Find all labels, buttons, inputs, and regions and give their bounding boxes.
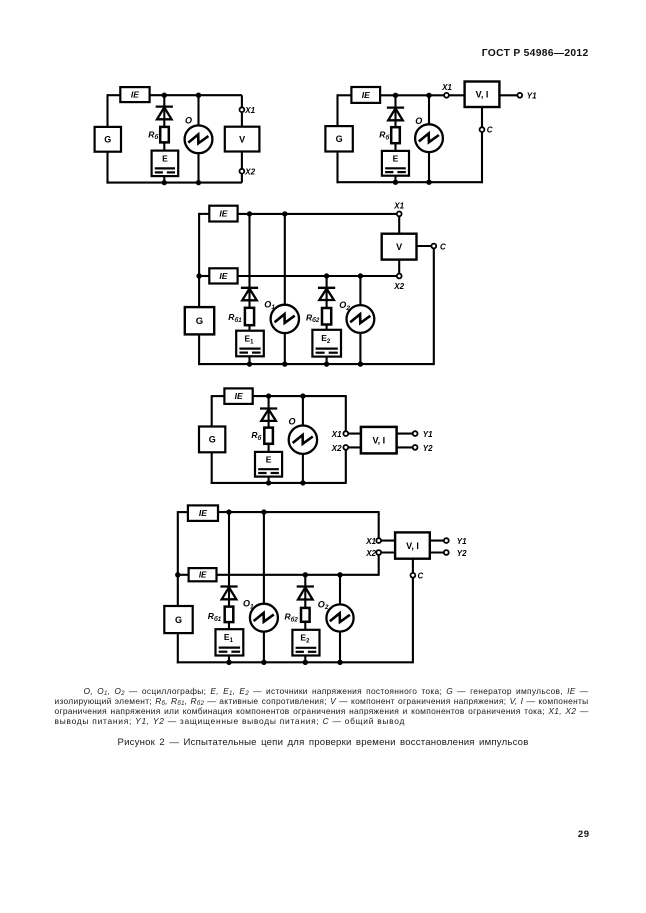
- node: circuit3 branch Rб2 / rail2: [324, 273, 329, 278]
- wire: circuit5 rail2 corner up to X2: [379, 553, 395, 576]
- wire: circuit4 left vertical (G to bottom rail): [211, 452, 213, 484]
- svg-text:Rб1: Rб1: [228, 312, 242, 324]
- svg-text:O1: O1: [264, 299, 275, 311]
- node: circuit5 branch O1 / rail1: [261, 509, 266, 514]
- terminal X1 (circuit 5): [376, 538, 381, 543]
- svg-text:X2: X2: [365, 549, 376, 558]
- wire: circuit4 stub from IE left to left vertical: [212, 395, 225, 397]
- svg-text:G: G: [196, 316, 203, 327]
- resistor Rб2 (circuit 5): [301, 608, 310, 622]
- terminal C common (circuit 2): [480, 127, 485, 132]
- svg-text:Rб2: Rб2: [306, 312, 320, 324]
- wire: circuit1 stub from IE left to left vertical: [108, 94, 121, 96]
- svg-text:Y1: Y1: [457, 537, 467, 546]
- voltage limiting component V (circuit 3): [382, 234, 417, 260]
- svg-text:X2: X2: [244, 168, 255, 177]
- node: circuit5 branch O1 / bottom rail: [261, 660, 266, 665]
- wire: circuit4 diode branch vertical: [268, 396, 270, 483]
- wire: circuit3 bottom rail: [198, 363, 434, 365]
- svg-text:V, I: V, I: [476, 90, 489, 100]
- wire: circuit2 left vertical (IE to G): [336, 94, 338, 126]
- node: circuit3 branch Rб1 / rail1: [247, 211, 252, 216]
- node: circuit5 branch Rб2 / rail2: [303, 572, 308, 577]
- svg-text:E: E: [266, 454, 272, 464]
- terminal X2 (circuit 4): [343, 445, 348, 450]
- svg-text:Rб: Rб: [379, 130, 389, 142]
- svg-text:X1: X1: [331, 430, 342, 439]
- wire: circuit2 left vertical (G to bottom rail): [336, 152, 338, 184]
- DC voltage source E1 (circuit 3): [236, 331, 264, 357]
- node: circuit4 diode branch / top rail: [266, 393, 271, 398]
- svg-text:IE: IE: [199, 508, 207, 518]
- wire: circuit5 V,I common down through C to bottom rail: [412, 559, 414, 664]
- pulse generator G (circuit 2): [325, 126, 352, 151]
- svg-text:IE: IE: [362, 90, 370, 100]
- node: circuit5 branch Rб1 / rail1: [226, 509, 231, 514]
- terminal Y1 (circuit 4): [413, 431, 418, 436]
- svg-text:V, I: V, I: [372, 435, 385, 445]
- wire: circuit4 left vertical (IE to G): [211, 395, 213, 426]
- svg-text:C: C: [440, 242, 446, 251]
- svg-text:V: V: [239, 134, 245, 144]
- oscilloscope O2 (circuit 3): [347, 305, 375, 333]
- node: circuit5 branch O2 / rail2: [337, 572, 342, 577]
- node: circuit5 rail2 / left vertical: [175, 572, 180, 577]
- wire: circuit1 left vertical (IE to G): [106, 94, 108, 127]
- terminal C common (circuit 3): [431, 244, 436, 249]
- wire: circuit5 V,I output to Y1: [430, 540, 447, 542]
- isolating element IE2 (circuit 5): [189, 568, 217, 581]
- wire: circuit4 oscilloscope branch vertical: [302, 396, 304, 483]
- svg-text:IE: IE: [199, 571, 207, 580]
- svg-text:Y2: Y2: [423, 444, 433, 453]
- wire: circuit3 line rail X1: [238, 213, 397, 215]
- pulse generator G (circuit 5): [164, 606, 192, 633]
- terminal Y1 (circuit 2): [517, 93, 522, 98]
- svg-text:G: G: [175, 615, 182, 625]
- pulse generator G (circuit 3): [185, 307, 214, 334]
- diode VD (circuit 1): [156, 107, 173, 120]
- wire: circuit4 bottom rail: [211, 482, 346, 484]
- node: circuit5 branch Rб1 / bottom rail: [226, 660, 231, 665]
- svg-text:E: E: [162, 153, 168, 163]
- wire: circuit3 V box to X2: [398, 260, 400, 276]
- svg-text:G: G: [209, 435, 216, 445]
- terminal Y2 (circuit 4): [413, 445, 418, 450]
- svg-text:X2: X2: [331, 444, 342, 453]
- resistor Rб2 (circuit 3): [322, 308, 331, 325]
- svg-text:C: C: [487, 126, 493, 135]
- terminal C common (circuit 5): [411, 573, 416, 578]
- wire: circuit3 branch Rб2 vertical (rail2 to bottom): [326, 276, 328, 364]
- svg-text:Y1: Y1: [423, 430, 433, 439]
- node: circuit3 branch O1 / rail1: [282, 211, 287, 216]
- svg-text:Rб1: Rб1: [208, 611, 222, 623]
- node: circuit1 diode branch / top rail: [162, 93, 167, 98]
- wire: circuit3 left vertical (G to bottom rail): [198, 334, 200, 365]
- oscilloscope O (circuit 1): [185, 125, 213, 153]
- pulse generator G (circuit 1): [95, 127, 121, 152]
- voltage/current limiting components V,I (circuit 5): [395, 532, 430, 558]
- wire: circuit3 branch O1 vertical (rail1 to bottom, crosses rail2): [284, 214, 286, 364]
- wire: circuit4 top rail: [253, 395, 346, 397]
- node: circuit3 branch Rб1 / bottom rail: [247, 361, 252, 366]
- terminal X1 (circuit 2): [444, 93, 449, 98]
- wire: circuit3 X1 to V box: [398, 214, 400, 234]
- page number: [0, 829, 590, 840]
- node: circuit2 diode branch / top rail: [393, 93, 398, 98]
- node: circuit3 branch O2 / bottom rail: [358, 361, 363, 366]
- wire: circuit5 rail1 corner down to X1: [379, 511, 395, 540]
- wire: circuit5 left vertical (G to bottom rail): [177, 633, 179, 663]
- voltage/current limiting components V,I (circuit 4): [361, 427, 397, 454]
- isolating element IE1 (circuit 5): [188, 505, 218, 521]
- wire: circuit2 diode branch vertical: [394, 95, 396, 182]
- svg-text:X1: X1: [441, 83, 452, 92]
- svg-text:O: O: [185, 115, 192, 125]
- oscilloscope O1 (circuit 5): [250, 604, 278, 632]
- wire: circuit5 branch O1 vertical (rail1 to bottom, crosses rail2): [263, 512, 265, 662]
- svg-text:X2: X2: [393, 282, 404, 291]
- terminal X1 (circuit 1): [240, 107, 245, 112]
- page header: standard number: [0, 48, 589, 59]
- resistor Rб (circuit 4): [264, 428, 273, 444]
- svg-text:O: O: [415, 116, 422, 126]
- wire: circuit5 branch Rб1 vertical (rail1 to bottom, crosses rail2): [228, 512, 230, 662]
- node: circuit3 branch O2 / rail2: [358, 273, 363, 278]
- svg-text:Rб2: Rб2: [285, 612, 299, 624]
- wire: circuit1 top rail: [150, 94, 242, 96]
- svg-text:Y2: Y2: [457, 549, 467, 558]
- isolating element IE (circuit 4): [224, 388, 252, 404]
- DC voltage source E (circuit 1): [152, 151, 179, 177]
- svg-text:O2: O2: [339, 300, 350, 312]
- isolating element IE (circuit 2): [351, 87, 380, 103]
- wire: circuit4 V,I output to Y1: [397, 433, 416, 435]
- wire: circuit3 branch O2 vertical (rail2 to bottom): [359, 276, 361, 364]
- wire: circuit1 oscilloscope branch vertical: [197, 95, 199, 182]
- wire: circuit2 common wire V,I to bottom rail (through C): [481, 107, 483, 183]
- voltage limiting component V (circuit 1): [225, 127, 260, 152]
- node: circuit2 osc branch / bottom rail: [426, 180, 431, 185]
- node: circuit4 diode branch / bottom rail: [266, 480, 271, 485]
- wire: circuit3 left vertical (rail1 to G): [198, 213, 200, 307]
- wire: circuit1 bottom rail: [107, 182, 242, 184]
- terminal X2 (circuit 5): [376, 550, 381, 555]
- node: circuit4 osc branch / top rail: [300, 393, 305, 398]
- wire: circuit1 right branch vertical X1-V-X2: [241, 95, 243, 182]
- oscilloscope O (circuit 2): [415, 124, 443, 152]
- DC voltage source E (circuit 4): [255, 452, 282, 477]
- svg-text:E: E: [393, 153, 399, 163]
- wire: circuit2 oscilloscope branch vertical: [428, 95, 430, 182]
- wire: circuit4 bottom rail corner up to X2: [346, 447, 361, 484]
- wire: circuit3 C terminal down to bottom rail: [433, 246, 435, 365]
- figure caption: [0, 737, 646, 748]
- node: circuit5 branch Rб2 / bottom rail: [303, 660, 308, 665]
- node: circuit2 osc branch / top rail: [426, 93, 431, 98]
- wire: circuit4 top rail corner down to X1: [346, 395, 361, 434]
- svg-text:X1: X1: [365, 537, 376, 546]
- node: circuit2 diode branch / bottom rail: [393, 180, 398, 185]
- diode VD2 (circuit 5): [297, 587, 314, 600]
- svg-text:Rб: Rб: [251, 430, 261, 442]
- DC voltage source E2 (circuit 3): [312, 330, 341, 357]
- wire: circuit2 stub from IE left to left vertical: [338, 94, 352, 96]
- oscilloscope O2 (circuit 5): [326, 604, 353, 631]
- node: circuit3 rail2 / left vertical: [196, 273, 201, 278]
- node: circuit1 diode branch / bottom rail: [162, 180, 167, 185]
- svg-text:Rб: Rб: [148, 129, 158, 141]
- node: circuit1 osc branch / top rail: [196, 93, 201, 98]
- svg-text:G: G: [336, 134, 343, 144]
- wire: circuit1 diode branch vertical: [163, 95, 165, 182]
- wire: circuit2 V,I output to Y1: [499, 94, 519, 96]
- svg-text:O1: O1: [243, 599, 254, 611]
- resistor Rб1 (circuit 3): [245, 308, 254, 325]
- svg-text:IE: IE: [131, 90, 139, 100]
- wire: circuit3 V box to C terminal: [417, 245, 434, 247]
- wire: circuit5 left vertical (rail1 to G): [177, 511, 179, 606]
- DC voltage source E (circuit 2): [382, 151, 409, 176]
- isolating element IE (circuit 1): [120, 87, 149, 102]
- node: circuit1 osc branch / bottom rail: [196, 180, 201, 185]
- pulse generator G (circuit 4): [199, 427, 225, 453]
- diode VD2 (circuit 3): [318, 288, 335, 300]
- diode VD (circuit 2): [387, 108, 404, 121]
- terminal Y2 (circuit 5): [444, 550, 449, 555]
- svg-text:V: V: [396, 242, 402, 252]
- wire: circuit5 line rail 1: [218, 511, 379, 513]
- wire: circuit1 left vertical (G to bottom rail): [106, 152, 108, 184]
- terminal X1 (circuit 3): [397, 212, 402, 217]
- node: circuit5 branch O2 / bottom rail: [337, 660, 342, 665]
- wire: circuit5 V,I output to Y2: [430, 551, 447, 553]
- diode VD1 (circuit 3): [241, 288, 258, 301]
- svg-text:X1: X1: [244, 106, 255, 115]
- svg-text:IE: IE: [219, 209, 227, 219]
- node: circuit3 branch Rб2 / bottom rail: [324, 361, 329, 366]
- DC voltage source E2 (circuit 5): [292, 630, 319, 656]
- wire: circuit3 stub IE2 left: [199, 275, 209, 277]
- svg-text:G: G: [104, 135, 111, 145]
- wire: circuit5 line rail 2: [217, 574, 379, 576]
- wire: circuit4 V,I output to Y2: [397, 446, 416, 448]
- svg-text:V, I: V, I: [406, 541, 419, 551]
- svg-text:C: C: [418, 572, 424, 581]
- wire: circuit3 line rail X2: [238, 275, 397, 277]
- terminal X2 (circuit 3): [397, 274, 402, 279]
- svg-text:Y1: Y1: [527, 92, 537, 101]
- wire: circuit5 bottom rail: [177, 661, 413, 663]
- oscilloscope O1 (circuit 3): [271, 305, 299, 333]
- resistor Rб (circuit 1): [160, 127, 169, 142]
- voltage/current limiting components V,I (circuit 2): [465, 82, 500, 108]
- wire: circuit5 branch O2 vertical (rail2 to bottom): [339, 575, 341, 663]
- terminal X1 (circuit 4): [343, 431, 348, 436]
- svg-text:X1: X1: [393, 201, 404, 210]
- node: circuit4 osc branch / bottom rail: [300, 480, 305, 485]
- svg-text:O2: O2: [318, 599, 329, 611]
- svg-text:O: O: [289, 416, 296, 426]
- DC voltage source E1 (circuit 5): [216, 629, 244, 655]
- wire: circuit3 branch Rб1 vertical (rail1 to bottom, crosses rail2): [248, 214, 250, 364]
- node: circuit3 branch O1 / bottom rail: [282, 361, 287, 366]
- svg-text:IE: IE: [235, 391, 243, 401]
- isolating element IE1 (circuit 3): [209, 206, 237, 222]
- wire: circuit5 stub IE1 left: [178, 511, 188, 513]
- wire: circuit5 branch Rб2 vertical (rail2 to bottom): [304, 575, 306, 663]
- resistor Rб (circuit 2): [391, 127, 400, 143]
- resistor Rб1 (circuit 5): [225, 607, 234, 623]
- wire: circuit5 stub IE2 left: [178, 574, 189, 576]
- oscilloscope O (circuit 4): [289, 426, 317, 454]
- wire: circuit3 stub IE1 left: [199, 213, 209, 215]
- svg-text:IE: IE: [219, 271, 227, 281]
- diode VD (circuit 4): [260, 409, 277, 421]
- wire: circuit2 bottom rail: [337, 181, 483, 183]
- terminal Y1 (circuit 5): [444, 538, 449, 543]
- legend: component designations: [55, 686, 589, 727]
- isolating element IE2 (circuit 3): [209, 268, 237, 283]
- terminal X2 (circuit 1): [240, 169, 245, 174]
- diode VD1 (circuit 5): [220, 587, 237, 600]
- wire: circuit2 top rail to V,I: [380, 94, 465, 96]
